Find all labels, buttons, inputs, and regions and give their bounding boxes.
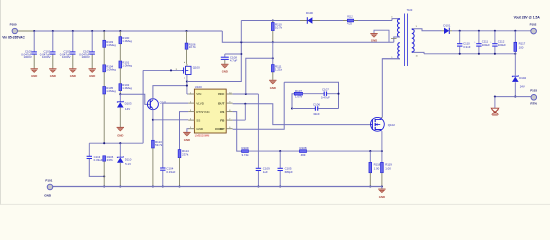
svg-text:1.00: 1.00 [374, 167, 380, 171]
wire Q101 collector to startup node [153, 86, 187, 100]
svg-text:R109: R109 [242, 146, 249, 150]
resistor R113 59.7k [152, 140, 163, 187]
wire Q100 gate net vertical [142, 70, 144, 143]
svg-text:10.7k: 10.7k [189, 45, 197, 49]
wire clamp rail [241, 21, 392, 43]
resistor R114 237k [178, 149, 189, 187]
capacitor C104 0.33uF [160, 166, 176, 187]
svg-text:Q102: Q102 [388, 123, 395, 127]
wire Q100 source to C108 rail [187, 42, 241, 81]
transformer T100 secondary winding [412, 26, 442, 58]
svg-text:Vin 85-265VAC: Vin 85-265VAC [2, 35, 25, 39]
resistor R111 1.21k with ground [269, 42, 283, 90]
svg-text:100uF: 100uF [498, 43, 506, 47]
capacitor C101 0.047uF 1000V with ground [40, 30, 57, 78]
svg-text:P101: P101 [45, 178, 52, 182]
capacitor C113 0.33uF [87, 143, 105, 176]
svg-text:D102: D102 [519, 76, 526, 80]
svg-text:24V: 24V [520, 85, 525, 89]
svg-text:59.7k: 59.7k [155, 143, 163, 147]
resistor R110 10.7k [271, 19, 282, 43]
svg-text:GND: GND [196, 127, 204, 131]
svg-text:5.1V: 5.1V [125, 162, 131, 166]
connector P103 RTN port [530, 89, 537, 106]
svg-text:100: 100 [519, 45, 524, 49]
transistor Q101 NPN [147, 99, 167, 110]
svg-text:GND: GND [50, 74, 56, 78]
svg-text:D110: D110 [125, 157, 132, 161]
transistor Q100 startup FET [176, 62, 200, 79]
resistor R109 3.74k [241, 146, 299, 157]
capacitor C105 680pF [278, 151, 294, 187]
capacitor C106 33nF [292, 102, 339, 116]
zener diode D103 14V with ground [117, 94, 132, 137]
svg-text:3.3nF: 3.3nF [463, 45, 471, 49]
wire Q101 emitter down [152, 109, 154, 141]
svg-text:GND: GND [222, 70, 228, 74]
svg-text:100uF: 100uF [482, 43, 490, 47]
svg-text:1.0Meg: 1.0Meg [122, 39, 132, 43]
wire primary ground rail [53, 186, 382, 188]
diode D100 clamp [300, 11, 320, 24]
svg-text:P103: P103 [530, 89, 537, 93]
svg-text:1000V: 1000V [42, 55, 50, 59]
transformer T100 primary and core [382, 9, 413, 66]
ground chassis at transformer tap [370, 30, 389, 42]
svg-text:RT/SYNC: RT/SYNC [196, 110, 210, 114]
wire node NW lower divider [89, 142, 143, 144]
capacitor C110 3.3nF [457, 31, 471, 54]
svg-text:LM5020MM: LM5020MM [195, 134, 210, 138]
svg-text:GND: GND [31, 74, 37, 78]
svg-text:237k: 237k [107, 158, 114, 162]
svg-text:GND: GND [89, 74, 95, 78]
transistor Q102 power MOSFET [371, 117, 396, 131]
svg-text:1.07k: 1.07k [295, 95, 303, 99]
connector P101 GND port [44, 178, 53, 197]
wire Q102 drain [381, 117, 382, 119]
ground IC GND pin [183, 129, 190, 142]
svg-text:1.0Meg: 1.0Meg [106, 89, 116, 93]
node R113 bottom [152, 185, 154, 187]
op-amp U100 LM5020MM PWM controller IC [188, 85, 232, 138]
svg-text:Vout 28V @ 1.5A: Vout 28V @ 1.5A [514, 16, 541, 20]
svg-text:C107: C107 [322, 88, 329, 92]
wire compensation bridge [284, 82, 338, 108]
svg-text:1.0Meg: 1.0Meg [122, 64, 132, 68]
resistor R119 1.00 sense [381, 151, 393, 187]
resistor chain R103 R104 R105 1.0Meg bleeder [103, 30, 116, 143]
wire CS net [233, 112, 242, 152]
svg-text:U100: U100 [195, 85, 202, 89]
svg-text:0.33uF: 0.33uF [94, 158, 103, 162]
svg-text:R112: R112 [347, 15, 353, 18]
svg-text:499: 499 [301, 153, 306, 157]
svg-text:D100: D100 [306, 11, 313, 15]
svg-text:1.21k: 1.21k [275, 67, 283, 71]
svg-text:R108: R108 [300, 146, 307, 150]
capacitor C111 100uF [474, 31, 490, 54]
svg-text:1000V: 1000V [62, 55, 70, 59]
resistor R115 237k [103, 155, 114, 188]
svg-text:1.0Meg: 1.0Meg [122, 86, 132, 90]
svg-text:D101: D101 [443, 23, 450, 27]
wire OUT to Q102 gate [233, 103, 371, 125]
svg-text:1000V: 1000V [23, 55, 31, 59]
capacitor C100 0.047uF 1000V with ground [21, 30, 38, 78]
svg-text:0.33uF: 0.33uF [166, 170, 175, 174]
svg-text:RTN: RTN [530, 102, 537, 106]
capacitor C102 0.047uF 1000V with ground [60, 30, 77, 78]
connector P102 Vout port [514, 16, 541, 34]
resistor R118 1.00 sense [369, 151, 381, 187]
ground chassis earth secondary [491, 97, 499, 116]
resistor R117 100 [514, 31, 526, 76]
capacitor C107 0.47uF [303, 88, 340, 100]
svg-text:1.0Meg: 1.0Meg [106, 43, 116, 47]
resistor R112 4.25 [343, 15, 358, 25]
svg-text:VLVD: VLVD [196, 101, 205, 105]
zener diode D110 5.1V [117, 143, 132, 187]
svg-text:P100: P100 [10, 23, 17, 27]
resistor R107 1.07k [291, 89, 303, 110]
svg-text:GND: GND [44, 194, 52, 198]
wire Q102 source [381, 131, 383, 151]
svg-text:GND: GND [270, 86, 276, 90]
wire FB net [233, 104, 246, 120]
svg-text:1000V: 1000V [81, 55, 89, 59]
wire output return to P103 [494, 96, 531, 98]
resistor R106 10.7k [185, 30, 196, 64]
svg-text:14V: 14V [125, 107, 130, 111]
wire VCC net [233, 57, 274, 168]
zener diode D102 24V [512, 75, 527, 97]
wire COMP net [233, 82, 285, 129]
svg-text:1uF: 1uF [263, 170, 268, 174]
wire secondary return rail [424, 53, 516, 55]
svg-text:VIN: VIN [196, 92, 201, 96]
wire RT to R114 [180, 112, 189, 150]
svg-text:D103: D103 [125, 102, 132, 106]
svg-text:s: s [184, 77, 185, 79]
svg-text:33nF: 33nF [313, 112, 320, 116]
capacitor C108 4.7uF with ground [221, 53, 243, 74]
wire Q100 source to VIN [186, 75, 188, 95]
svg-text:10.7k: 10.7k [275, 25, 283, 29]
svg-text:GND: GND [371, 39, 377, 43]
ground primary main [378, 187, 385, 199]
svg-text:4.7uF: 4.7uF [230, 59, 238, 63]
svg-text:Q100: Q100 [193, 65, 200, 69]
wire input rail [34, 30, 222, 32]
wire output rail [452, 30, 531, 32]
svg-text:0.47uF: 0.47uF [321, 96, 330, 100]
svg-text:1.0Meg: 1.0Meg [106, 67, 116, 71]
resistor R108 499 [300, 146, 383, 157]
svg-text:OUT: OUT [218, 101, 225, 105]
svg-text:4.25: 4.25 [347, 23, 352, 26]
svg-text:Q101: Q101 [160, 101, 167, 105]
svg-text:1.00: 1.00 [385, 167, 391, 171]
svg-text:CS: CS [220, 110, 224, 114]
connector P100 Vin input port [2, 23, 34, 40]
svg-text:GND: GND [379, 195, 385, 199]
svg-text:GND: GND [184, 138, 190, 142]
svg-text:T100: T100 [407, 9, 413, 12]
svg-text:P102: P102 [530, 23, 537, 27]
capacitor C109 1uF [256, 167, 270, 188]
wire divider node to Q101 base [119, 93, 150, 104]
wire Q100 drain [186, 64, 188, 66]
capacitor C112 100uF [490, 31, 506, 54]
wire primary feed rail [222, 31, 393, 43]
svg-text:R107: R107 [295, 89, 302, 93]
svg-text:3.74k: 3.74k [241, 153, 249, 157]
svg-text:COMP: COMP [215, 127, 224, 131]
wire Q100 gate lead [143, 69, 182, 71]
svg-text:d: d [184, 62, 185, 64]
wire T100 pin1 to Q102 drain [382, 59, 400, 118]
diode D101 output rectifier [442, 23, 453, 34]
svg-text:GND: GND [117, 134, 123, 138]
resistor chain R100 R101 R102 1.0Meg divider [119, 30, 132, 94]
svg-text:SS: SS [196, 118, 200, 122]
wire SS to Q101 emitter [153, 119, 188, 121]
capacitor C103 0.047uF 1000V with ground [79, 30, 96, 78]
wire VLVD to C104 [163, 103, 188, 168]
svg-text:237k: 237k [182, 153, 189, 157]
svg-text:GND: GND [70, 74, 76, 78]
svg-text:VCC: VCC [218, 92, 225, 96]
svg-text:680pF: 680pF [285, 170, 293, 174]
svg-text:C106: C106 [313, 102, 320, 106]
